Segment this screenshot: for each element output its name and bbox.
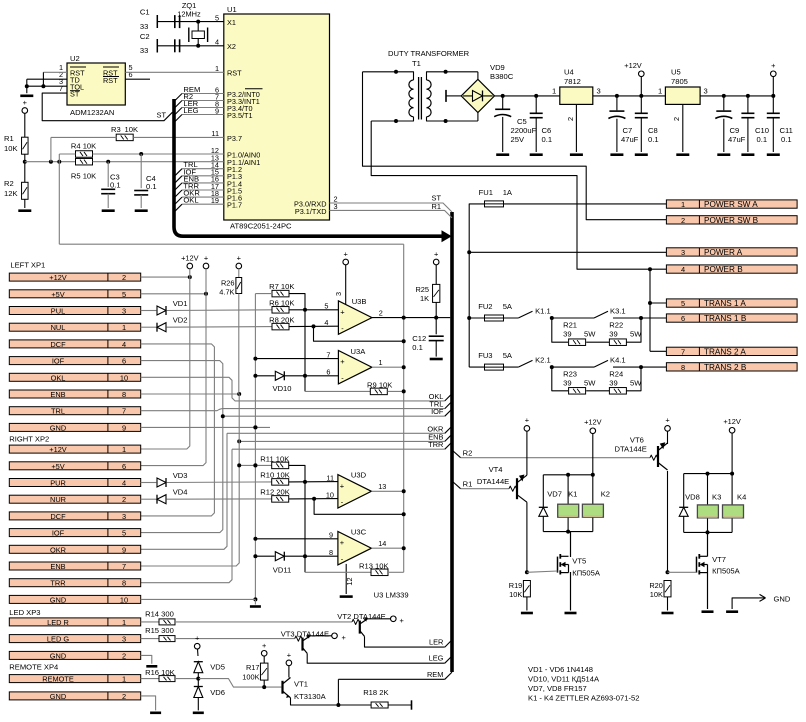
svg-text:ENB: ENB <box>50 390 65 399</box>
svg-text:2: 2 <box>122 692 126 701</box>
svg-text:0.1: 0.1 <box>146 182 157 191</box>
svg-text:TRANS 2 A: TRANS 2 A <box>704 347 746 356</box>
svg-text:8: 8 <box>122 579 126 588</box>
svg-text:R9 10K: R9 10K <box>367 380 392 389</box>
svg-text:REM: REM <box>427 670 443 679</box>
svg-text:8: 8 <box>681 363 685 372</box>
svg-text:DTA144E: DTA144E <box>615 445 647 454</box>
svg-text:VD11: VD11 <box>273 566 291 575</box>
svg-text:B380C: B380C <box>490 72 514 81</box>
svg-text:КП505А: КП505А <box>712 566 741 575</box>
svg-text:3: 3 <box>334 292 343 296</box>
svg-text:R2: R2 <box>4 179 14 188</box>
svg-text:LED R: LED R <box>47 618 69 627</box>
svg-text:39: 39 <box>609 330 617 339</box>
svg-text:3: 3 <box>681 248 685 257</box>
svg-text:POWER A: POWER A <box>704 248 743 257</box>
svg-text:LEFT XP1: LEFT XP1 <box>10 261 45 270</box>
svg-text:10: 10 <box>326 490 334 499</box>
svg-text:7805: 7805 <box>671 77 688 86</box>
svg-text:K1: K1 <box>568 489 577 498</box>
svg-text:P3.1/TXD: P3.1/TXD <box>295 207 327 216</box>
svg-text:VT1: VT1 <box>294 680 308 689</box>
svg-text:C6: C6 <box>542 126 552 135</box>
svg-text:33: 33 <box>140 22 148 31</box>
svg-text:R19: R19 <box>509 581 523 590</box>
svg-text:FU3: FU3 <box>478 351 492 360</box>
svg-text:FU2: FU2 <box>478 302 492 311</box>
svg-text:X1: X1 <box>227 18 236 27</box>
svg-text:U3D: U3D <box>351 471 367 480</box>
svg-text:P3.7: P3.7 <box>227 134 242 143</box>
svg-text:2: 2 <box>672 117 681 121</box>
svg-text:P3.5/T1: P3.5/T1 <box>227 111 253 120</box>
svg-text:GND: GND <box>50 692 66 701</box>
svg-text:4: 4 <box>122 479 126 488</box>
svg-text:R26: R26 <box>221 279 235 288</box>
svg-text:R24: R24 <box>609 370 623 379</box>
svg-text:U5: U5 <box>671 68 681 77</box>
svg-text:R2: R2 <box>463 449 473 458</box>
svg-text:RST: RST <box>227 69 242 78</box>
svg-text:X2: X2 <box>227 42 236 51</box>
svg-text:2: 2 <box>566 117 575 121</box>
svg-text:+5V: +5V <box>51 462 64 471</box>
svg-text:DTA144E: DTA144E <box>477 477 509 486</box>
svg-text:VD7: VD7 <box>547 489 562 498</box>
svg-text:U3 LM339: U3 LM339 <box>374 590 409 599</box>
svg-text:12K: 12K <box>4 189 18 198</box>
svg-text:POWER SW A: POWER SW A <box>704 200 758 209</box>
svg-text:7812: 7812 <box>564 77 581 86</box>
svg-text:TRR: TRR <box>428 440 443 449</box>
svg-text:1: 1 <box>122 445 126 454</box>
svg-text:C7: C7 <box>623 126 633 135</box>
svg-text:5: 5 <box>122 529 126 538</box>
svg-text:R13 10K: R13 10K <box>359 562 389 571</box>
svg-text:TRANS 2 B: TRANS 2 B <box>704 363 747 372</box>
svg-text:ENB: ENB <box>50 562 65 571</box>
svg-text:+: + <box>195 633 199 642</box>
svg-text:VT5: VT5 <box>572 557 586 566</box>
svg-text:GND: GND <box>50 595 66 604</box>
svg-text:K3.1: K3.1 <box>610 307 626 316</box>
svg-text:+: + <box>525 416 529 425</box>
svg-text:1K: 1K <box>420 294 429 303</box>
svg-text:2: 2 <box>122 651 126 660</box>
svg-text:VT4: VT4 <box>489 465 503 474</box>
svg-text:VT7: VT7 <box>712 555 726 564</box>
svg-text:5A: 5A <box>503 302 513 311</box>
svg-text:5W: 5W <box>630 330 642 339</box>
svg-text:NUL: NUL <box>51 323 66 332</box>
svg-text:39: 39 <box>609 379 617 388</box>
svg-text:5W: 5W <box>584 379 596 388</box>
svg-text:+: + <box>344 250 348 259</box>
svg-text:+: + <box>340 538 345 547</box>
svg-text:VD1: VD1 <box>173 299 188 308</box>
svg-text:R25: R25 <box>415 285 429 294</box>
svg-text:11: 11 <box>326 473 334 482</box>
svg-text:GND: GND <box>50 651 66 660</box>
svg-text:47uF: 47uF <box>728 135 746 144</box>
svg-text:TRANS 1 A: TRANS 1 A <box>704 299 746 308</box>
svg-text:1: 1 <box>552 87 556 96</box>
svg-text:KT3130A: KT3130A <box>294 692 327 701</box>
svg-text:R1: R1 <box>4 134 14 143</box>
svg-text:+: + <box>237 254 241 263</box>
svg-text:R1: R1 <box>463 480 473 489</box>
svg-text:6: 6 <box>129 70 133 79</box>
svg-text:R22: R22 <box>609 321 623 330</box>
svg-text:+: + <box>665 416 669 425</box>
svg-text:NUR: NUR <box>50 495 66 504</box>
svg-text:7: 7 <box>122 562 126 571</box>
svg-text:TRANS 1 B: TRANS 1 B <box>704 314 747 323</box>
svg-text:LEG: LEG <box>183 106 198 115</box>
svg-text:ST: ST <box>70 90 80 99</box>
svg-text:+: + <box>434 250 438 259</box>
svg-text:U4: U4 <box>564 68 574 77</box>
svg-text:3: 3 <box>597 87 601 96</box>
svg-text:VD2: VD2 <box>173 316 188 325</box>
svg-text:PUL: PUL <box>51 307 65 316</box>
svg-text:K4: K4 <box>737 493 746 502</box>
svg-text:+5V: +5V <box>51 290 64 299</box>
svg-text:VT3 DTA144E: VT3 DTA144E <box>281 630 329 639</box>
svg-text:VD7, VD8 FR157: VD7, VD8 FR157 <box>528 684 587 693</box>
svg-text:+: + <box>262 641 266 650</box>
svg-text:33: 33 <box>140 46 148 55</box>
svg-text:VD9: VD9 <box>490 63 505 72</box>
svg-text:K3: K3 <box>712 493 721 502</box>
svg-text:14: 14 <box>378 539 386 548</box>
svg-text:R10 10K: R10 10K <box>260 470 290 479</box>
svg-text:VD6: VD6 <box>210 688 225 697</box>
svg-text:AT89C2051-24PC: AT89C2051-24PC <box>230 222 292 231</box>
svg-text:3: 3 <box>122 635 126 644</box>
svg-text:R7 10K: R7 10K <box>269 282 294 291</box>
svg-text:5W: 5W <box>630 379 642 388</box>
svg-text:VD1 - VD6 1N4148: VD1 - VD6 1N4148 <box>528 665 593 674</box>
svg-text:REMOTE XP4: REMOTE XP4 <box>9 663 58 672</box>
svg-text:VD3: VD3 <box>173 471 188 480</box>
svg-text:VD10, VD11 КД514А: VD10, VD11 КД514А <box>528 675 600 684</box>
svg-text:7: 7 <box>681 347 685 356</box>
svg-text:0.1: 0.1 <box>648 135 659 144</box>
svg-text:TRL: TRL <box>51 407 65 416</box>
svg-text:5W: 5W <box>584 330 596 339</box>
svg-text:+: + <box>340 481 345 490</box>
svg-text:4: 4 <box>681 265 685 274</box>
svg-text:DUTY TRANSFORMER: DUTY TRANSFORMER <box>388 49 470 58</box>
svg-text:VD5: VD5 <box>210 663 225 672</box>
svg-text:13: 13 <box>378 482 386 491</box>
svg-text:12MHz: 12MHz <box>177 10 201 19</box>
svg-text:IOF: IOF <box>52 357 65 366</box>
svg-text:R17: R17 <box>246 663 260 672</box>
svg-text:C11: C11 <box>780 126 793 135</box>
svg-text:R4 10K: R4 10K <box>71 142 96 151</box>
svg-text:1: 1 <box>681 200 685 209</box>
svg-text:+: + <box>340 308 345 317</box>
svg-text:10: 10 <box>120 373 128 382</box>
svg-text:5A: 5A <box>503 351 513 360</box>
svg-text:R15 300: R15 300 <box>145 626 174 635</box>
svg-text:TRR: TRR <box>50 579 65 588</box>
svg-text:5: 5 <box>122 290 126 299</box>
svg-text:C5: C5 <box>517 117 527 126</box>
svg-text:R1: R1 <box>432 202 441 211</box>
svg-text:6: 6 <box>326 368 330 377</box>
svg-text:9: 9 <box>122 545 126 554</box>
svg-text:4: 4 <box>122 340 126 349</box>
svg-text:R21: R21 <box>563 321 577 330</box>
svg-text:+12V: +12V <box>723 417 741 426</box>
svg-text:+12V: +12V <box>181 254 199 263</box>
svg-text:U1: U1 <box>227 5 237 14</box>
svg-text:2: 2 <box>379 309 383 318</box>
svg-text:LED XP3: LED XP3 <box>9 608 40 617</box>
svg-text:6: 6 <box>122 462 126 471</box>
svg-text:1: 1 <box>122 675 126 684</box>
svg-text:POWER SW B: POWER SW B <box>704 216 759 225</box>
svg-text:1: 1 <box>122 618 126 627</box>
svg-text:C1: C1 <box>140 8 150 17</box>
svg-text:10: 10 <box>120 595 128 604</box>
svg-text:3: 3 <box>122 512 126 521</box>
svg-text:3: 3 <box>122 307 126 316</box>
svg-text:RST: RST <box>103 76 118 85</box>
svg-text:P1.7: P1.7 <box>227 201 242 210</box>
svg-text:ST: ST <box>157 111 167 120</box>
svg-text:POWER B: POWER B <box>704 265 743 274</box>
svg-text:10K: 10K <box>650 590 663 599</box>
svg-text:0.1: 0.1 <box>412 343 423 352</box>
svg-text:12: 12 <box>345 577 354 585</box>
svg-text:6: 6 <box>681 314 685 323</box>
svg-text:8: 8 <box>329 548 333 557</box>
svg-text:VD8: VD8 <box>685 493 700 502</box>
svg-text:+: + <box>342 633 346 642</box>
svg-text:100K: 100K <box>242 672 259 681</box>
svg-text:REMOTE: REMOTE <box>42 675 74 684</box>
svg-text:0.1: 0.1 <box>781 135 792 144</box>
svg-text:3: 3 <box>704 87 708 96</box>
svg-text:4.7K: 4.7K <box>219 288 234 297</box>
svg-text:FU1: FU1 <box>479 188 493 197</box>
svg-text:R18 2K: R18 2K <box>363 688 388 697</box>
svg-text:+: + <box>400 616 404 625</box>
svg-text:10K: 10K <box>509 590 522 599</box>
svg-text:OKL: OKL <box>183 196 198 205</box>
svg-text:+: + <box>204 254 208 263</box>
svg-text:K1.1: K1.1 <box>535 307 551 316</box>
svg-text:RIGHT XP2: RIGHT XP2 <box>9 435 49 444</box>
svg-text:2: 2 <box>122 495 126 504</box>
svg-text:U2: U2 <box>70 54 80 63</box>
svg-text:C10: C10 <box>755 126 769 135</box>
svg-text:LER: LER <box>429 638 443 647</box>
svg-text:IOF: IOF <box>431 407 444 416</box>
svg-text:+12V: +12V <box>584 418 602 427</box>
svg-text:6: 6 <box>122 357 126 366</box>
svg-text:DCF: DCF <box>50 340 66 349</box>
svg-text:7: 7 <box>122 407 126 416</box>
svg-text:VD10: VD10 <box>273 384 292 393</box>
svg-text:39: 39 <box>563 379 571 388</box>
svg-text:2: 2 <box>122 273 126 282</box>
svg-text:5: 5 <box>681 299 685 308</box>
svg-text:1A: 1A <box>503 188 513 197</box>
svg-text:0.1: 0.1 <box>757 135 768 144</box>
svg-text:OKR: OKR <box>50 545 66 554</box>
svg-text:U3C: U3C <box>351 528 367 537</box>
svg-text:PUR: PUR <box>50 479 66 488</box>
svg-text:4: 4 <box>324 318 328 327</box>
svg-text:+12V: +12V <box>49 445 67 454</box>
svg-text:9: 9 <box>122 423 126 432</box>
svg-text:K4.1: K4.1 <box>610 356 626 365</box>
svg-text:2: 2 <box>681 216 685 225</box>
svg-text:R3: R3 <box>111 125 121 134</box>
svg-text:LED G: LED G <box>47 635 69 644</box>
svg-text:+: + <box>340 357 345 366</box>
svg-text:10K: 10K <box>4 144 18 153</box>
svg-text:DCF: DCF <box>50 512 66 521</box>
svg-text:+: + <box>287 650 291 659</box>
svg-text:7: 7 <box>326 350 330 359</box>
svg-text:КП505А: КП505А <box>572 569 601 578</box>
svg-text:T1: T1 <box>412 59 421 68</box>
svg-text:5: 5 <box>324 302 328 311</box>
svg-text:GND: GND <box>774 595 791 604</box>
svg-text:ADM1232AN: ADM1232AN <box>70 108 114 117</box>
svg-text:K1 - K4 ZETTLER AZ693-071-5: K1 - K4 ZETTLER AZ693-071-52 <box>528 694 639 703</box>
svg-text:0.1: 0.1 <box>110 180 121 189</box>
svg-text:7: 7 <box>59 84 63 93</box>
svg-text:1: 1 <box>379 358 383 367</box>
svg-text:+: + <box>23 98 27 107</box>
svg-text:0.1: 0.1 <box>542 135 553 144</box>
svg-text:K2: K2 <box>601 489 610 498</box>
svg-text:8: 8 <box>122 390 126 399</box>
svg-text:+: + <box>771 61 775 70</box>
svg-text:R20: R20 <box>649 581 663 590</box>
svg-text:2200uF: 2200uF <box>511 126 537 135</box>
svg-text:GND: GND <box>50 423 66 432</box>
svg-text:R5 10K: R5 10K <box>71 172 96 181</box>
svg-text:1: 1 <box>122 323 126 332</box>
svg-text:C9: C9 <box>730 126 740 135</box>
svg-text:39: 39 <box>563 330 571 339</box>
svg-text:LEG: LEG <box>429 654 444 663</box>
svg-text:C8: C8 <box>648 126 658 135</box>
svg-text:C12: C12 <box>412 334 426 343</box>
svg-text:OKL: OKL <box>51 373 66 382</box>
svg-text:R14 300: R14 300 <box>145 610 174 619</box>
svg-text:+12V: +12V <box>49 273 67 282</box>
svg-text:47uF: 47uF <box>621 135 639 144</box>
svg-text:C2: C2 <box>140 32 150 41</box>
svg-text:IOF: IOF <box>52 529 65 538</box>
svg-text:VT2 DTA144E: VT2 DTA144E <box>337 612 385 621</box>
svg-text:R23: R23 <box>563 370 577 379</box>
svg-text:K2.1: K2.1 <box>535 356 551 365</box>
svg-text:10K: 10K <box>125 125 139 134</box>
svg-text:VT6: VT6 <box>630 436 644 445</box>
svg-text:+12V: +12V <box>624 61 642 70</box>
svg-text:VD4: VD4 <box>173 488 188 497</box>
svg-text:5: 5 <box>215 13 219 22</box>
svg-text:U3A: U3A <box>351 347 367 356</box>
svg-text:25V: 25V <box>511 135 525 144</box>
svg-text:U3B: U3B <box>352 297 367 306</box>
svg-text:1: 1 <box>658 87 662 96</box>
